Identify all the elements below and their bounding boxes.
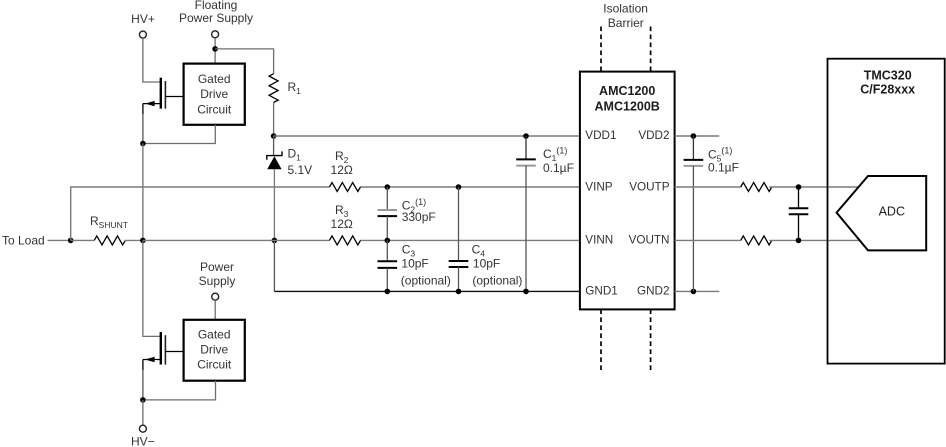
svg-text:0.1µF: 0.1µF [708,161,739,175]
svg-text:ADC: ADC [879,205,905,219]
svg-text:VDD1: VDD1 [585,129,616,142]
resistor RSHUNT [71,214,143,245]
svg-text:Gated: Gated [198,72,231,86]
transistor Q1 (top MOSFET) [143,78,184,144]
resistor R1 [269,74,301,103]
wire floating supply to junction [214,38,216,64]
resistor output filter top [741,183,772,192]
capacitor C2 330pF [378,184,436,243]
capacitor C5 0.1uF [684,136,739,291]
op-amp U1 AMC1200 box [580,72,675,310]
resistor R2 12ohm [329,149,360,192]
capacitor C1 0.1uF [516,133,574,294]
wire VDD2 stub [675,135,720,137]
svg-text:Barrier: Barrier [608,16,644,30]
svg-text:Power: Power [200,260,234,274]
wire VOUTP rail [675,186,741,188]
junction GND2 node [691,289,697,295]
node HV+ terminal [131,12,155,38]
svg-text:(optional): (optional) [472,274,522,288]
box Gated Drive Circuit (top) [184,64,245,125]
node HV- terminal [131,425,155,447]
svg-text:C/F28xxx: C/F28xxx [860,83,915,97]
junction Q1 source node [140,141,146,147]
svg-text:330pF: 330pF [402,210,436,224]
svg-text:12Ω: 12Ω [331,163,353,177]
svg-text:To Load: To Load [2,233,45,247]
box Gated Drive Circuit (bottom) [184,320,245,381]
capacitor output filter [789,187,809,240]
wire VINN rail R3 to IC [360,239,580,241]
svg-text:Gated: Gated [198,328,231,342]
wire GND2 stub [675,290,720,292]
svg-text:AMC1200B: AMC1200B [595,99,660,113]
svg-text:Circuit: Circuit [197,103,232,117]
transistor Q2 (bottom MOSFET) [143,332,184,400]
wire VOUTN rail [675,239,741,241]
node Isolation Barrier [601,2,651,373]
op-amp ADC block [837,176,927,250]
junction VOUTN filter node [796,238,802,244]
svg-text:GND2: GND2 [637,285,669,298]
svg-text:12Ω: 12Ω [331,217,353,231]
junction VOUTP filter node [796,184,802,190]
svg-text:Supply: Supply [199,274,236,288]
junction Q2 source node [140,397,146,403]
wire VINP rail R2 to IC [360,186,580,188]
svg-text:Drive: Drive [200,87,228,101]
capacitor C4 10pF (optional) [449,184,523,294]
svg-text:Isolation: Isolation [603,2,648,16]
junction D1 anode / VINN node [272,238,278,244]
box TMC320 C/F28xxx [828,59,945,364]
wire floating supply junction to R1 top [215,49,274,74]
wire Q1 source node down to shunt node [142,144,144,241]
junction shunt left node [68,238,74,244]
wire power supply to bottom gated drive box [214,300,216,319]
svg-text:Circuit: Circuit [197,358,232,372]
wire top gated drive box bottom to Q1 source node [143,125,215,144]
svg-text:0.1µF: 0.1µF [543,161,574,175]
wire To Load lead [48,239,71,241]
svg-text:VOUTN: VOUTN [629,234,670,247]
svg-text:Power Supply: Power Supply [179,11,253,25]
svg-text:VOUTP: VOUTP [629,180,669,193]
wire VOUTN rail to ADC [769,239,860,241]
svg-text:(optional): (optional) [401,274,451,288]
diode D1 zener 5.1V [267,136,312,240]
wire D1 node down to GND1 rail [273,240,275,291]
svg-text:AMC1200: AMC1200 [599,84,655,98]
node Power Supply terminal [199,260,236,300]
resistor output filter bottom [741,236,772,245]
wire VINN rail shunt to R3 [143,239,330,241]
wire GND1 rail [274,290,580,292]
svg-text:GND1: GND1 [585,285,617,298]
junction VDD1 left node [271,133,277,139]
svg-text:5.1V: 5.1V [288,163,313,177]
resistor R3 12ohm [329,203,360,245]
wire R1 bottom to VDD1 node [273,103,275,137]
wire VOUTP rail to ADC [769,186,858,188]
svg-text:VDD2: VDD2 [638,129,669,142]
junction shunt right node [140,238,146,244]
svg-text:HV+: HV+ [131,12,155,26]
node Floating Power Supply terminal [179,0,253,38]
wire left sense riser to VINP rail [71,187,330,240]
svg-text:TMC320: TMC320 [864,69,912,83]
svg-text:10pF: 10pF [473,256,500,270]
svg-text:VINN: VINN [585,234,613,247]
wire HV+ riser to Q1 drain [143,38,161,82]
wire VDD1 rail [274,135,580,137]
capacitor C3 10pF (optional) [378,240,451,294]
wire bottom gated drive box bottom to Q2 source node [143,381,216,400]
wire Q2 source node to HV- [142,400,144,425]
svg-text:10pF: 10pF [401,256,428,270]
junction VDD2 node [691,133,697,139]
wire shunt node down to Q2 drain [143,240,162,336]
junction floating supply node [212,46,218,52]
svg-text:VINP: VINP [585,180,612,193]
svg-text:HV−: HV− [131,435,155,447]
svg-text:Drive: Drive [200,343,228,357]
